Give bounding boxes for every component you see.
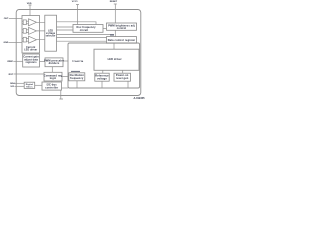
svg-text:A-012345: A-012345 bbox=[134, 97, 146, 100]
svg-text:SDA: SDA bbox=[10, 82, 15, 85]
svg-text:LED driver: LED driver bbox=[108, 58, 122, 61]
svg-text:adjust data: adjust data bbox=[24, 58, 38, 61]
svg-text:selector: selector bbox=[46, 34, 56, 37]
svg-text:SCL: SCL bbox=[10, 86, 15, 88]
svg-text:LED driver: LED driver bbox=[24, 49, 37, 51]
svg-text:control: control bbox=[117, 27, 127, 30]
svg-text:GND: GND bbox=[4, 42, 9, 44]
svg-text:voltage: voltage bbox=[97, 77, 107, 80]
svg-text:RST: RST bbox=[9, 74, 14, 76]
svg-text:Data control register: Data control register bbox=[108, 39, 136, 42]
svg-text:Current gain: Current gain bbox=[23, 55, 39, 58]
svg-text:controller: controller bbox=[45, 87, 58, 90]
svg-text:VREF: VREF bbox=[7, 61, 13, 63]
svg-text:circuit: circuit bbox=[80, 29, 89, 32]
svg-text:frequency: frequency bbox=[70, 77, 84, 80]
svg-text:VDD: VDD bbox=[27, 3, 32, 5]
svg-text:dividers: dividers bbox=[49, 62, 60, 65]
svg-text:registers: registers bbox=[26, 61, 38, 64]
svg-text:filters: filters bbox=[26, 86, 33, 89]
svg-text:VCC1: VCC1 bbox=[72, 1, 79, 3]
svg-text:logic: logic bbox=[50, 77, 57, 80]
svg-text:OUT: OUT bbox=[4, 18, 9, 20]
svg-text:TCA62724: TCA62724 bbox=[72, 60, 84, 63]
svg-text:reset gen: reset gen bbox=[116, 77, 129, 80]
svg-text:RESET: RESET bbox=[110, 1, 118, 3]
